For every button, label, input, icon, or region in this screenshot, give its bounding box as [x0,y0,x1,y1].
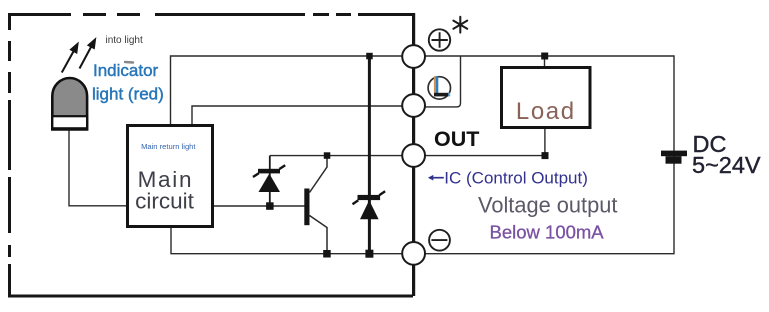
svg-text:IC (Control Output): IC (Control Output) [444,169,588,188]
svg-text:circuit: circuit [135,189,195,214]
svg-text:5~24V: 5~24V [692,152,761,178]
svg-text:into light: into light [106,35,143,46]
svg-text:OUT: OUT [434,127,479,151]
svg-text:Indicator: Indicator [93,61,159,80]
svg-text:Below 100mA: Below 100mA [490,222,605,243]
svg-text:Voltage output: Voltage output [478,193,617,218]
svg-text:Main return light: Main return light [141,142,196,151]
svg-text:light (red): light (red) [92,84,164,103]
svg-text:Load: Load [516,98,576,125]
